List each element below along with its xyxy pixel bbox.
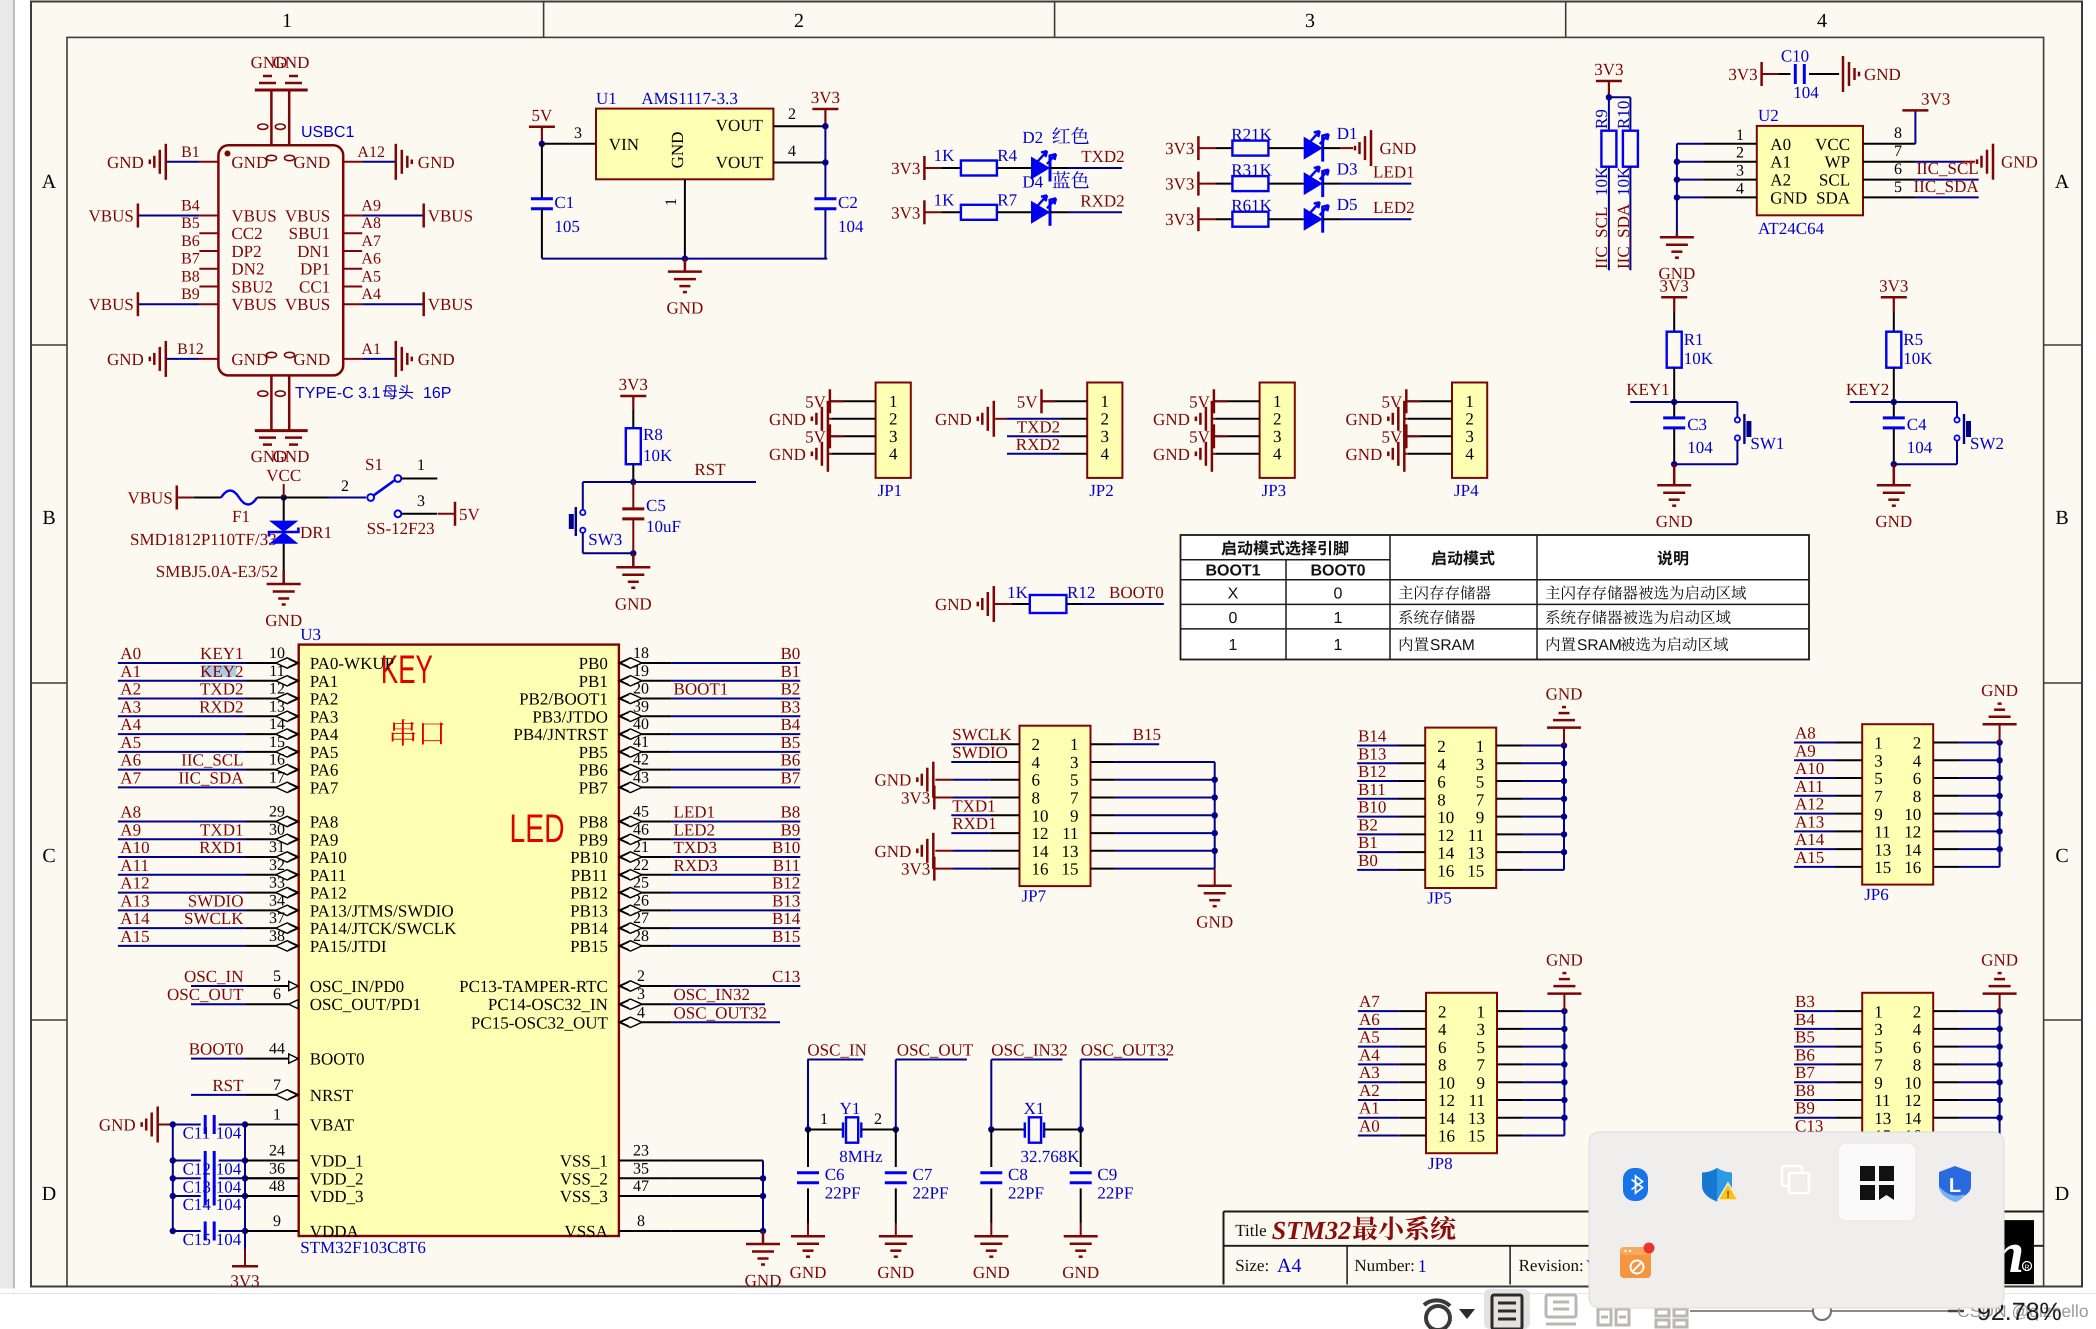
svg-text:S1: S1 bbox=[365, 455, 383, 474]
header JP2 bbox=[1087, 383, 1122, 478]
JP5 right pin 11 wire bbox=[1496, 833, 1522, 835]
svg-text:GND: GND bbox=[231, 153, 268, 172]
ground JP5 above bbox=[1563, 728, 1565, 746]
svg-text:32: 32 bbox=[269, 857, 285, 874]
svg-text:C8: C8 bbox=[1008, 1165, 1028, 1184]
resistor R8 bbox=[632, 411, 634, 428]
svg-text:IIC_SCL: IIC_SCL bbox=[1592, 207, 1611, 269]
crystal Y1 bbox=[805, 1126, 811, 1132]
svg-text:3V3: 3V3 bbox=[901, 860, 930, 879]
svg-text:GND: GND bbox=[293, 350, 330, 369]
svg-text:1: 1 bbox=[1476, 737, 1485, 756]
svg-text:104: 104 bbox=[1907, 438, 1933, 457]
JP5 right pin 3 wire bbox=[1496, 762, 1522, 764]
toolbar two-page icons bbox=[1598, 1309, 1629, 1325]
svg-text:PB1: PB1 bbox=[579, 672, 608, 691]
USBC1 shell stem top bbox=[270, 90, 273, 145]
JP5 right pin 1 wire bbox=[1496, 745, 1522, 747]
svg-text:A8: A8 bbox=[1795, 724, 1816, 743]
svg-text:10: 10 bbox=[1032, 806, 1049, 825]
svg-text:A2: A2 bbox=[1770, 171, 1791, 190]
app left gutter bbox=[0, 0, 13, 1329]
svg-text:RXD3: RXD3 bbox=[674, 856, 718, 875]
svg-text:VBUS: VBUS bbox=[89, 207, 134, 226]
svg-text:C10: C10 bbox=[1781, 47, 1809, 66]
JP7 left pin 10 bbox=[990, 814, 1020, 816]
svg-text:R10: R10 bbox=[1614, 101, 1633, 129]
svg-text:GND: GND bbox=[99, 1116, 136, 1135]
svg-text:LED2: LED2 bbox=[674, 820, 716, 839]
svg-text:8: 8 bbox=[1913, 787, 1922, 806]
svg-text:B13: B13 bbox=[1358, 744, 1386, 763]
svg-text:SS-12F23: SS-12F23 bbox=[367, 519, 435, 538]
JP6 left pin 1 A8 bbox=[1836, 742, 1863, 744]
resistor R2 with LED D1 to GND bbox=[1197, 136, 1200, 160]
svg-text:GND: GND bbox=[1380, 139, 1417, 158]
svg-text:JP4: JP4 bbox=[1454, 481, 1479, 500]
svg-text:4: 4 bbox=[1913, 752, 1922, 771]
svg-text:VBUS: VBUS bbox=[231, 207, 276, 226]
svg-text:B3: B3 bbox=[780, 697, 800, 716]
USBC1 pin B5 CC2 bbox=[199, 232, 218, 234]
svg-text:14: 14 bbox=[1904, 1109, 1922, 1128]
svg-text:104: 104 bbox=[216, 1124, 242, 1143]
svg-text:PA0-WKUP: PA0-WKUP bbox=[310, 654, 394, 673]
svg-text:A0: A0 bbox=[120, 644, 141, 663]
svg-text:BOOT0: BOOT0 bbox=[1310, 563, 1365, 580]
svg-text:U1: U1 bbox=[596, 89, 617, 108]
svg-text:PA15/JTDI: PA15/JTDI bbox=[310, 937, 387, 956]
svg-text:SW3: SW3 bbox=[588, 530, 622, 549]
svg-text:28: 28 bbox=[633, 928, 649, 945]
svg-text:5V: 5V bbox=[805, 427, 827, 446]
svg-text:39: 39 bbox=[633, 698, 649, 715]
USBC1 pin A1 GND bbox=[343, 358, 362, 360]
JP8 right pin 13 wire bbox=[1497, 1117, 1523, 1119]
ground top of USBC1 bbox=[255, 89, 308, 92]
JP9 left pin 15 C13 bbox=[1836, 1135, 1863, 1137]
svg-text:15: 15 bbox=[269, 734, 285, 751]
svg-text:B11: B11 bbox=[1358, 780, 1386, 799]
svg-text:D: D bbox=[42, 1183, 56, 1205]
wire gnd bottom bbox=[542, 258, 827, 260]
svg-text:5V: 5V bbox=[1382, 392, 1404, 411]
svg-text:RXD2: RXD2 bbox=[1080, 191, 1124, 210]
mcu U3 body bbox=[299, 645, 619, 1236]
power 3V3 right bbox=[812, 108, 838, 111]
svg-text:30: 30 bbox=[269, 821, 285, 838]
USBC1 pin B1 GND bbox=[199, 161, 218, 163]
svg-text:PB7: PB7 bbox=[579, 778, 609, 797]
svg-text:A4: A4 bbox=[1277, 1255, 1301, 1277]
svg-text:A6: A6 bbox=[120, 751, 141, 770]
svg-text:PB5: PB5 bbox=[579, 743, 608, 762]
U3 red text 串口 (serial) bbox=[392, 719, 444, 746]
svg-text:10K: 10K bbox=[643, 446, 673, 465]
svg-text:1: 1 bbox=[1101, 392, 1110, 411]
svg-text:8: 8 bbox=[1894, 125, 1902, 142]
svg-text:R8: R8 bbox=[643, 425, 663, 444]
svg-text:SMD1812P110TF/33: SMD1812P110TF/33 bbox=[130, 530, 277, 549]
svg-text:GND: GND bbox=[877, 1263, 914, 1282]
svg-text:RXD2: RXD2 bbox=[199, 697, 243, 716]
JP6 left pin 15 A15 bbox=[1836, 866, 1863, 868]
svg-text:A14: A14 bbox=[120, 909, 150, 928]
svg-text:1: 1 bbox=[663, 198, 680, 206]
svg-text:4: 4 bbox=[1101, 444, 1110, 463]
svg-text:C11: C11 bbox=[183, 1124, 211, 1143]
toolbar zoom tool icon bbox=[1424, 1300, 1450, 1329]
svg-text:SDA: SDA bbox=[1816, 188, 1851, 207]
svg-text:5: 5 bbox=[1476, 773, 1485, 792]
svg-text:40: 40 bbox=[633, 716, 649, 733]
svg-text:IIC_SCL: IIC_SCL bbox=[1916, 159, 1978, 178]
svg-text:B15: B15 bbox=[1133, 725, 1161, 744]
svg-text:PA4: PA4 bbox=[310, 725, 339, 744]
svg-text:4: 4 bbox=[1465, 444, 1474, 463]
switch S1 bbox=[284, 497, 329, 499]
resistor R4 with LED D2 red TXD2 bbox=[923, 156, 926, 180]
USBC1 pin A12 GND bbox=[343, 161, 362, 163]
svg-text:A1: A1 bbox=[361, 341, 381, 358]
svg-text:22: 22 bbox=[633, 857, 649, 874]
svg-text:IIC_SDA: IIC_SDA bbox=[1914, 177, 1980, 196]
JP6 left pin 3 A9 bbox=[1836, 759, 1863, 761]
svg-text:GND: GND bbox=[668, 132, 687, 169]
svg-text:GND: GND bbox=[1981, 951, 2018, 970]
svg-text:GND: GND bbox=[615, 594, 652, 613]
key circuit R1 C3 SW1 KEY1 bbox=[1661, 296, 1687, 299]
USBC1 pin B8 SBU2 bbox=[199, 286, 218, 288]
svg-text:14: 14 bbox=[1032, 842, 1050, 861]
svg-text:B12: B12 bbox=[177, 341, 204, 358]
toolbar background bbox=[0, 1289, 2096, 1329]
svg-text:10: 10 bbox=[269, 645, 285, 662]
svg-text:9: 9 bbox=[1476, 808, 1485, 827]
svg-text:USBC1: USBC1 bbox=[301, 124, 354, 141]
svg-text:GND: GND bbox=[973, 1263, 1010, 1282]
JP7 left pin 6 bbox=[990, 779, 1020, 781]
JP6 left pin 11 A13 bbox=[1836, 830, 1863, 832]
svg-text:1: 1 bbox=[1334, 637, 1343, 654]
svg-text:104: 104 bbox=[838, 217, 864, 236]
svg-text:B1: B1 bbox=[780, 662, 800, 681]
svg-text:A6: A6 bbox=[361, 251, 381, 268]
junction vout4 bbox=[822, 159, 828, 165]
svg-text:B12: B12 bbox=[1358, 762, 1386, 781]
svg-text:2: 2 bbox=[1437, 737, 1446, 756]
svg-text:C15: C15 bbox=[183, 1230, 211, 1249]
svg-text:38: 38 bbox=[269, 928, 285, 945]
header JP3 bbox=[1260, 383, 1295, 478]
svg-text:B4: B4 bbox=[1795, 1010, 1815, 1029]
svg-text:DP2: DP2 bbox=[231, 242, 261, 261]
table header 启动模式选择引脚 bbox=[1221, 540, 1348, 555]
eeprom U2 body bbox=[1757, 126, 1863, 215]
svg-text:3V3: 3V3 bbox=[230, 1271, 259, 1290]
svg-text:TXD1: TXD1 bbox=[200, 820, 243, 839]
power 3V3 R8 bbox=[620, 395, 646, 398]
ground C8 bbox=[990, 1235, 993, 1238]
svg-text:3V3: 3V3 bbox=[1879, 276, 1908, 295]
svg-text:GND: GND bbox=[666, 299, 703, 318]
svg-text:PA10: PA10 bbox=[310, 848, 347, 867]
JP6 right pin 6 wire bbox=[1933, 777, 1959, 779]
svg-text:4: 4 bbox=[1817, 10, 1827, 32]
svg-text:A: A bbox=[2055, 171, 2070, 193]
svg-text:12: 12 bbox=[1032, 824, 1049, 843]
capacitor C2 bbox=[814, 197, 836, 200]
title block frame bbox=[1224, 1211, 2044, 1213]
svg-text:20: 20 bbox=[633, 681, 649, 698]
capacitor C11 bbox=[173, 1124, 201, 1126]
ground bottom of USBC1 bbox=[255, 429, 308, 432]
svg-text:A1: A1 bbox=[120, 662, 141, 681]
svg-text:TXD3: TXD3 bbox=[674, 838, 717, 857]
JP8 left pin 8 A4 bbox=[1399, 1063, 1426, 1065]
svg-text:GND: GND bbox=[2001, 153, 2038, 172]
svg-text:11: 11 bbox=[1469, 1091, 1485, 1110]
svg-text:R4: R4 bbox=[997, 146, 1017, 165]
svg-text:B9: B9 bbox=[780, 820, 800, 839]
svg-text:46: 46 bbox=[633, 821, 649, 838]
power VBUS input bbox=[176, 486, 179, 510]
windows logo icon bbox=[1860, 1166, 1894, 1200]
svg-text:R9: R9 bbox=[1592, 109, 1611, 129]
svg-text:OSC_OUT32: OSC_OUT32 bbox=[674, 1003, 768, 1022]
capacitor C8 bbox=[990, 1130, 992, 1168]
USBC1 pin A7 DN1 bbox=[343, 250, 362, 252]
svg-text:GND: GND bbox=[107, 153, 144, 172]
svg-text:A15: A15 bbox=[1795, 848, 1824, 867]
svg-text:12: 12 bbox=[1438, 1091, 1455, 1110]
defender shield icon bbox=[1702, 1168, 1732, 1202]
svg-text:SWDIO: SWDIO bbox=[188, 891, 244, 910]
JP8 right pin 15 wire bbox=[1497, 1135, 1523, 1137]
svg-text:5: 5 bbox=[1874, 769, 1883, 788]
svg-text:DP1: DP1 bbox=[300, 260, 330, 279]
svg-text:SMBJ5.0A-E3/52: SMBJ5.0A-E3/52 bbox=[156, 562, 278, 581]
junction pullup bbox=[1606, 94, 1612, 100]
table header 启动模式 bbox=[1431, 550, 1494, 565]
svg-text:3V3: 3V3 bbox=[1728, 65, 1757, 84]
ground VSS bbox=[762, 1231, 765, 1244]
svg-text:A1: A1 bbox=[1770, 153, 1791, 172]
svg-text:A5: A5 bbox=[1359, 1028, 1380, 1047]
svg-text:PB14: PB14 bbox=[570, 919, 608, 938]
U2 address wires to gnd bbox=[1677, 143, 1703, 145]
svg-text:7: 7 bbox=[1894, 143, 1902, 160]
svg-text:3: 3 bbox=[1305, 10, 1315, 32]
key circuit R5 C4 SW2 KEY2 bbox=[1881, 296, 1907, 299]
power 5V bbox=[529, 126, 555, 129]
svg-text:PA2: PA2 bbox=[310, 690, 339, 709]
svg-text:C5: C5 bbox=[646, 496, 666, 515]
svg-text:1: 1 bbox=[1736, 127, 1744, 144]
svg-text:13: 13 bbox=[1062, 842, 1079, 861]
svg-text:PB9: PB9 bbox=[579, 830, 608, 849]
header JP1 bbox=[876, 383, 911, 478]
svg-text:16P: 16P bbox=[423, 385, 451, 402]
svg-text:VSS_3: VSS_3 bbox=[560, 1187, 608, 1206]
svg-text:1: 1 bbox=[1874, 1002, 1883, 1021]
ground JP6 above bbox=[1999, 724, 2001, 742]
svg-text:42: 42 bbox=[633, 752, 649, 769]
svg-text:104: 104 bbox=[216, 1160, 242, 1179]
svg-text:RXD1: RXD1 bbox=[952, 814, 996, 833]
svg-text:DN1: DN1 bbox=[297, 242, 330, 261]
ground DR1 bbox=[282, 570, 285, 584]
svg-text:AT24C64: AT24C64 bbox=[1758, 219, 1825, 238]
svg-text:D1: D1 bbox=[1337, 124, 1358, 143]
svg-text:3V3: 3V3 bbox=[1660, 276, 1689, 295]
svg-text:B2: B2 bbox=[780, 680, 800, 699]
svg-text:CC1: CC1 bbox=[299, 278, 330, 297]
svg-text:2: 2 bbox=[341, 478, 349, 495]
svg-text:GND: GND bbox=[935, 410, 972, 429]
svg-text:D2: D2 bbox=[1022, 128, 1043, 147]
svg-text:11: 11 bbox=[1874, 823, 1890, 842]
JP7 left pin 8 bbox=[990, 797, 1020, 799]
svg-text:BOOT1: BOOT1 bbox=[1205, 563, 1260, 580]
svg-text:10: 10 bbox=[1438, 1073, 1455, 1092]
svg-text:2: 2 bbox=[1273, 409, 1282, 428]
svg-text:3V3: 3V3 bbox=[619, 375, 648, 394]
VSS bus wires bbox=[671, 1160, 763, 1162]
svg-text:34: 34 bbox=[269, 892, 285, 909]
svg-text:A11: A11 bbox=[120, 856, 149, 875]
svg-text:RXD1: RXD1 bbox=[199, 838, 243, 857]
svg-text:A15: A15 bbox=[120, 927, 149, 946]
svg-text:3: 3 bbox=[889, 427, 898, 446]
USBC1 pin B4 VBUS bbox=[199, 215, 218, 217]
JP5 left pin 6 B12 bbox=[1399, 780, 1426, 782]
svg-text:GND: GND bbox=[935, 595, 972, 614]
U2 pin 5 SDA bbox=[1863, 196, 1915, 198]
svg-text:1: 1 bbox=[820, 1111, 828, 1128]
resistor R10 bbox=[1609, 96, 1631, 98]
svg-text:KEY1: KEY1 bbox=[1626, 380, 1669, 399]
capacitor C10 bbox=[1760, 62, 1763, 86]
svg-text:VCC: VCC bbox=[1815, 135, 1850, 154]
svg-text:A9: A9 bbox=[120, 820, 141, 839]
svg-text:2: 2 bbox=[788, 106, 796, 123]
U1 pin 4 wire bbox=[773, 162, 825, 164]
JP5 right pin 13 wire bbox=[1496, 851, 1522, 853]
svg-text:1K: 1K bbox=[1007, 583, 1029, 602]
svg-text:OSC_OUT/PD1: OSC_OUT/PD1 bbox=[310, 995, 421, 1014]
svg-text:R5: R5 bbox=[1903, 330, 1923, 349]
svg-text:PA5: PA5 bbox=[310, 743, 339, 762]
svg-text:RST: RST bbox=[694, 460, 726, 479]
JP5 left pin 4 B13 bbox=[1399, 762, 1426, 764]
JP6 right pin 4 wire bbox=[1933, 759, 1959, 761]
svg-text:11: 11 bbox=[1062, 824, 1078, 843]
svg-text:1: 1 bbox=[1334, 610, 1343, 627]
svg-text:B9: B9 bbox=[181, 286, 200, 303]
svg-text:KEY2: KEY2 bbox=[200, 662, 243, 681]
svg-text:VBUS: VBUS bbox=[428, 295, 473, 314]
svg-text:5V: 5V bbox=[532, 106, 554, 125]
svg-text:B14: B14 bbox=[1358, 727, 1387, 746]
svg-text:STM32: STM32 bbox=[1272, 1216, 1351, 1245]
svg-text:3: 3 bbox=[417, 493, 425, 510]
JP7 right pin 5 wire bbox=[1091, 779, 1115, 781]
svg-text:AMS1117-3.3: AMS1117-3.3 bbox=[641, 89, 738, 108]
svg-text:R: R bbox=[2024, 1265, 2029, 1272]
svg-text:Y1: Y1 bbox=[840, 1099, 861, 1118]
net RST wire bbox=[633, 481, 756, 483]
svg-text:11: 11 bbox=[269, 663, 284, 680]
tray flyout panel bbox=[1589, 1132, 2004, 1308]
ground at C10 bbox=[1842, 56, 1845, 92]
svg-text:GND: GND bbox=[1153, 445, 1190, 464]
svg-text:16: 16 bbox=[1438, 1127, 1455, 1146]
svg-text:F1: F1 bbox=[232, 507, 250, 526]
svg-text:3: 3 bbox=[574, 125, 582, 142]
svg-text:3V3: 3V3 bbox=[1165, 139, 1194, 158]
svg-text:37: 37 bbox=[269, 910, 285, 927]
svg-text:12: 12 bbox=[1437, 826, 1454, 845]
svg-text:LED1: LED1 bbox=[674, 803, 716, 822]
svg-text:3V3: 3V3 bbox=[1165, 210, 1194, 229]
selection highlight KEY2 bbox=[203, 665, 236, 677]
svg-text:14: 14 bbox=[269, 716, 285, 733]
svg-text:GND: GND bbox=[1770, 188, 1807, 207]
svg-text:PC13-TAMPER-RTC: PC13-TAMPER-RTC bbox=[459, 977, 608, 996]
svg-text:KEY2: KEY2 bbox=[1846, 380, 1889, 399]
svg-text:2: 2 bbox=[794, 10, 804, 32]
svg-text:A7: A7 bbox=[120, 768, 141, 787]
svg-text:5: 5 bbox=[1874, 1038, 1883, 1057]
svg-text:5: 5 bbox=[1070, 771, 1079, 790]
table header 说明 bbox=[1658, 550, 1689, 565]
svg-text:GND: GND bbox=[874, 842, 911, 861]
svg-text:19: 19 bbox=[633, 663, 649, 680]
svg-text:DR1: DR1 bbox=[300, 523, 332, 542]
USBC1 pin B12 GND bbox=[199, 358, 218, 360]
svg-text:OSC_IN/PD0: OSC_IN/PD0 bbox=[310, 977, 404, 996]
svg-text:7: 7 bbox=[1874, 787, 1883, 806]
svg-text:PC15-OSC32_OUT: PC15-OSC32_OUT bbox=[471, 1013, 609, 1032]
svg-text:15: 15 bbox=[1468, 1127, 1485, 1146]
svg-text:PB0: PB0 bbox=[579, 654, 608, 673]
junction RST bbox=[630, 479, 636, 485]
svg-text:35: 35 bbox=[633, 1160, 649, 1177]
svg-text:25: 25 bbox=[633, 875, 649, 892]
top margin column dividers bbox=[543, 2, 545, 38]
wires cap bank to U3 bbox=[245, 1124, 246, 1126]
USBC1 pin B9 VBUS bbox=[199, 303, 218, 305]
wire to SW3 bbox=[583, 481, 634, 483]
header JP8 body bbox=[1426, 993, 1497, 1153]
svg-text:D5: D5 bbox=[1337, 195, 1358, 214]
cap bank left bus bbox=[172, 1125, 174, 1232]
svg-text:SBU1: SBU1 bbox=[289, 224, 331, 243]
svg-text:B1: B1 bbox=[1358, 833, 1378, 852]
svg-text:GND: GND bbox=[1345, 410, 1382, 429]
svg-text:104: 104 bbox=[216, 1177, 242, 1196]
svg-text:3: 3 bbox=[1101, 427, 1110, 446]
svg-text:IIC_SDA: IIC_SDA bbox=[1614, 203, 1633, 269]
svg-text:A5: A5 bbox=[120, 733, 141, 752]
net BOOT0 wire bbox=[1083, 603, 1164, 605]
resistor R3 with LED D3 LED1 bbox=[1197, 172, 1200, 196]
svg-text:10uF: 10uF bbox=[646, 517, 681, 536]
resistor R6 with LED D5 LED2 bbox=[1197, 207, 1200, 231]
svg-text:GND: GND bbox=[874, 771, 911, 790]
ground C6 bbox=[807, 1235, 810, 1238]
